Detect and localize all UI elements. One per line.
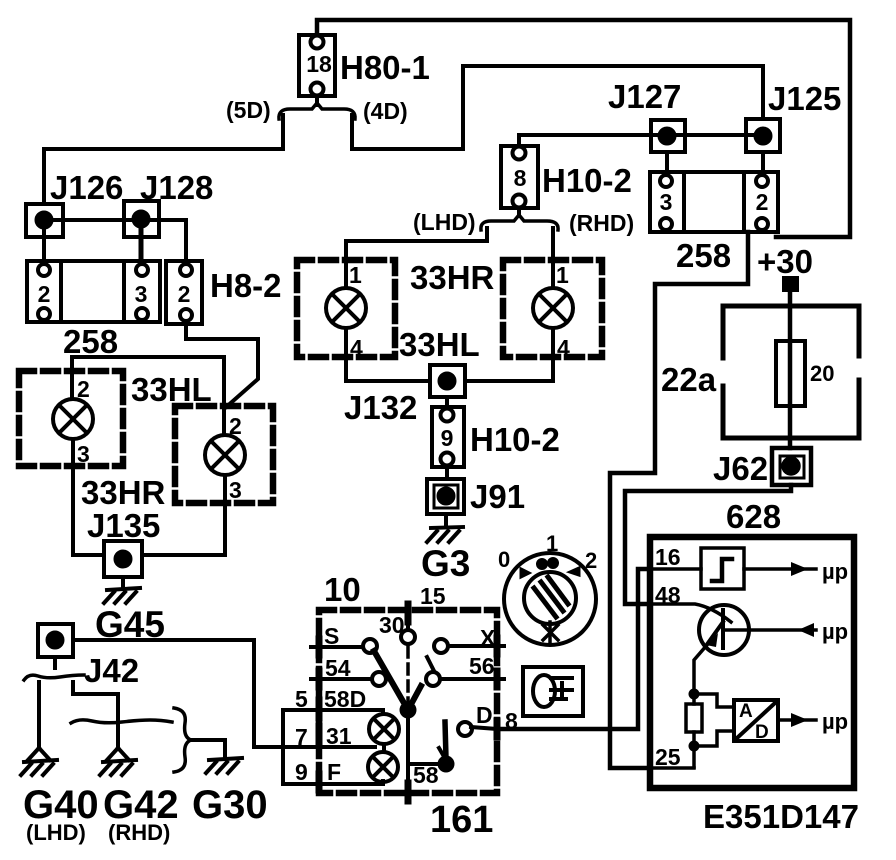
wire left lamp bus — [72, 357, 224, 435]
wire 31 line — [255, 745, 375, 749]
D lever — [445, 722, 446, 758]
linkage dashed — [406, 647, 410, 702]
wire LHD branch — [346, 228, 487, 288]
connector H10-2 pin8 — [501, 146, 538, 208]
wire J126 to J128 — [44, 218, 141, 222]
svg-text:258: 258 — [63, 323, 118, 360]
svg-text:18: 18 — [306, 51, 332, 77]
arrow left — [798, 623, 814, 637]
svg-text:(RHD): (RHD) — [569, 210, 634, 236]
connector J127 — [651, 120, 685, 152]
wire J42 to switch pin7 — [73, 640, 283, 747]
wire schmitt output to up — [744, 567, 816, 571]
bulb right — [205, 435, 245, 475]
wire J91 to ground — [444, 514, 448, 527]
lamp box 33HR right dashed — [175, 406, 273, 503]
connector separation line bottom — [71, 720, 172, 723]
wire A/D output to up — [778, 718, 816, 722]
svg-text:J135: J135 — [87, 507, 160, 544]
connector H80-1 — [299, 35, 335, 96]
svg-text:J127: J127 — [608, 78, 681, 115]
svg-text:22a: 22a — [661, 361, 717, 398]
svg-text:258: 258 — [676, 237, 731, 274]
svg-text:10: 10 — [324, 571, 361, 608]
svg-text:16: 16 — [655, 544, 681, 570]
connector J128 — [124, 201, 159, 237]
svg-text:µp: µp — [822, 709, 848, 734]
svg-text:2: 2 — [178, 281, 191, 307]
pin bar 56 — [494, 671, 501, 687]
svg-text:15: 15 — [420, 583, 446, 609]
schmitt trigger U1 — [701, 548, 744, 589]
wire 58 to D lever — [408, 762, 445, 766]
svg-text:(LHD): (LHD) — [26, 820, 86, 845]
wire J126 down — [42, 228, 46, 261]
emitter arrow — [706, 633, 718, 647]
pin bar 9 — [316, 774, 323, 790]
lamp box 33HL left dashed — [19, 371, 123, 466]
svg-text:33HL: 33HL — [131, 371, 212, 408]
A/D converter U2 — [734, 700, 778, 741]
wire brace to G30 — [191, 740, 225, 757]
pin 58 bar — [405, 783, 412, 801]
pin bar 5 — [316, 700, 323, 718]
switch box 10 dashed — [319, 610, 497, 793]
wire tap top to A/D — [694, 694, 734, 707]
svg-text:H10-2: H10-2 — [470, 421, 560, 458]
connector J91 — [427, 479, 464, 514]
wire H10-2 pin8 top to J127 J125 — [519, 135, 763, 146]
svg-text:(4D): (4D) — [363, 98, 408, 124]
svg-text:D: D — [755, 722, 769, 743]
svg-text:µp: µp — [822, 619, 848, 644]
wire H80-1 bottom stub — [315, 96, 319, 105]
svg-text:J62: J62 — [713, 450, 768, 487]
svg-text:2: 2 — [756, 189, 769, 215]
contact 54 — [372, 672, 386, 686]
svg-text:G30: G30 — [192, 783, 268, 827]
D lever tick — [439, 748, 446, 760]
svg-text:4: 4 — [557, 335, 570, 361]
junction node bottom — [689, 741, 700, 752]
contact X — [434, 639, 448, 653]
svg-text:0: 0 — [498, 547, 510, 572]
bulb mid-right — [533, 288, 573, 328]
svg-text:9: 9 — [295, 759, 308, 785]
knob bottom lamp mark — [543, 622, 558, 643]
svg-text:H8-2: H8-2 — [210, 267, 282, 304]
wire 8 line from switch to pin16 — [499, 569, 650, 729]
contact lever X-56 — [427, 657, 434, 671]
connector separation line top — [24, 675, 84, 680]
svg-text:D: D — [476, 702, 493, 728]
svg-text:(5D): (5D) — [226, 97, 271, 123]
wire G40 branch — [37, 682, 41, 748]
connector J125 — [746, 119, 780, 152]
connector J135 — [104, 541, 142, 577]
svg-text:8: 8 — [505, 708, 518, 734]
svg-text:J91: J91 — [470, 478, 525, 515]
connector J42 — [38, 624, 73, 657]
pin bar X — [494, 638, 501, 654]
split bracket LHD/RHD — [481, 215, 558, 230]
wire D to pin 8 — [471, 727, 497, 729]
wire 58D line — [283, 710, 383, 714]
wire collector to up — [723, 628, 816, 632]
contact D — [458, 722, 472, 736]
headlamp icon — [533, 675, 572, 707]
wire 54 — [311, 677, 371, 681]
svg-text:3: 3 — [135, 281, 148, 307]
connector J132 — [430, 365, 465, 397]
svg-text:33HR: 33HR — [81, 474, 166, 511]
wire right bulb to J135 — [142, 475, 225, 555]
wire 58 down — [406, 716, 410, 799]
svg-text:J132: J132 — [344, 389, 417, 426]
ground G3 — [427, 527, 463, 542]
wire pin48 to transistor base — [653, 604, 731, 622]
wire left link 5-9 — [281, 710, 285, 784]
control unit box E351D147 — [650, 537, 854, 788]
wire J127 to fuseblock — [665, 152, 669, 172]
ground G42 — [100, 760, 136, 775]
wire +30 to J62 through fuse — [788, 292, 793, 448]
wire mid-left bulb to J132 — [346, 328, 430, 381]
bulb mid-left — [326, 288, 366, 328]
svg-text:(LHD): (LHD) — [413, 209, 476, 235]
contact S — [363, 639, 377, 653]
arrow right — [791, 562, 808, 576]
wire H10-2 pin8 bottom stub — [517, 208, 521, 216]
lamp box 33HR mid-left dashed — [297, 260, 395, 357]
svg-text:F: F — [327, 759, 341, 785]
svg-text:+30: +30 — [757, 243, 813, 280]
wire H8-2 down diagonal to right lamp box — [186, 324, 258, 408]
wire RHD branch — [551, 228, 555, 288]
svg-text:3: 3 — [229, 477, 242, 503]
wire J128 down — [139, 228, 144, 261]
svg-text:2: 2 — [38, 281, 51, 307]
ground G45 — [104, 588, 140, 603]
contact 30 — [401, 630, 415, 644]
svg-text:4: 4 — [350, 335, 363, 361]
svg-text:J126: J126 — [50, 169, 123, 206]
fuse block 258 left — [27, 261, 160, 322]
wire 5D branch to J126 — [44, 115, 283, 204]
wire J128 to H8-2 top — [141, 220, 186, 261]
svg-text:A: A — [739, 701, 753, 722]
svg-text:2: 2 — [585, 548, 597, 573]
svg-text:µp: µp — [822, 559, 848, 584]
plug fork G40 — [28, 748, 50, 760]
svg-text:25: 25 — [655, 744, 681, 770]
transistor Q1 — [699, 605, 749, 655]
split bracket 5D/4D — [279, 103, 355, 119]
brace — [174, 708, 191, 772]
D lever node — [438, 756, 455, 773]
wire J62 to E351 pin48 — [625, 485, 791, 604]
wire 56 — [440, 677, 504, 681]
svg-text:H10-2: H10-2 — [542, 162, 632, 199]
connector J62 — [772, 448, 811, 485]
knob marks — [521, 559, 579, 578]
pin bar D8 — [494, 721, 501, 737]
wire top bus from H80-1 pin to right rail — [317, 20, 850, 237]
wire F line — [283, 781, 383, 784]
wire J132 to H10-2 pin9 — [445, 397, 449, 407]
svg-text:33HL: 33HL — [399, 326, 480, 363]
resistor R1 — [686, 704, 702, 732]
fuse block 258 right — [650, 172, 778, 232]
contact 56 — [426, 672, 440, 686]
svg-text:G3: G3 — [421, 543, 470, 584]
wire tap bottom to A/D — [694, 731, 734, 746]
pin bar 54 — [316, 671, 323, 687]
svg-text:20: 20 — [810, 361, 834, 386]
svg-text:8: 8 — [514, 165, 527, 191]
pin 15 bar — [405, 604, 412, 622]
svg-text:J125: J125 — [768, 80, 841, 117]
wire pin16 — [653, 567, 701, 571]
wire resistor leads — [692, 694, 696, 767]
wire S — [311, 645, 362, 649]
bulb ill 2 — [368, 752, 398, 782]
svg-text:1: 1 — [349, 262, 362, 288]
lamp box 33HL mid-right dashed — [503, 260, 602, 357]
svg-text:1: 1 — [556, 262, 569, 288]
wire mid-right bulb to J132 — [465, 328, 553, 381]
wire fuseblock to E351 feed — [610, 232, 748, 768]
fuse 20 — [776, 341, 805, 406]
wire J125 to fuseblock — [761, 152, 765, 172]
svg-text:3: 3 — [77, 441, 90, 467]
connector H10-2 pin9 — [432, 407, 464, 467]
svg-text:9: 9 — [441, 425, 454, 451]
connector H8-2 — [166, 261, 202, 324]
pivot node — [400, 702, 417, 719]
svg-text:(RHD): (RHD) — [108, 820, 170, 845]
junction node top — [689, 689, 700, 700]
wire 15 to contact 30 — [406, 622, 410, 630]
wire emitter down — [694, 645, 707, 694]
wire X — [448, 644, 504, 648]
wire J135 to ground — [121, 577, 125, 589]
svg-text:1: 1 — [546, 531, 558, 556]
ground G30 — [206, 758, 242, 773]
svg-text:33HR: 33HR — [410, 259, 495, 296]
connector J126 — [26, 204, 63, 237]
wire 4D branch to J125 — [352, 66, 763, 149]
wire between bulbs — [382, 744, 386, 752]
svg-text:E351D147: E351D147 — [703, 798, 859, 835]
pin bar 7 — [316, 726, 323, 744]
rotary light switch knob — [504, 553, 596, 645]
wire pin25 — [653, 766, 694, 770]
headlamp icon box — [523, 667, 583, 716]
svg-text:J42: J42 — [84, 652, 139, 689]
pin bar S — [316, 639, 323, 655]
wire G42 branch — [73, 682, 118, 748]
switch lever S to pivot — [374, 651, 421, 710]
terminal +30 — [782, 276, 799, 292]
svg-text:628: 628 — [726, 498, 781, 535]
bulb ill 1 — [369, 714, 399, 744]
wire H10-2 to J91 — [445, 467, 449, 479]
arrow right — [791, 713, 808, 727]
svg-text:161: 161 — [430, 799, 493, 841]
plug fork G42 — [107, 748, 129, 760]
svg-text:H80-1: H80-1 — [340, 49, 430, 86]
svg-text:3: 3 — [660, 189, 673, 215]
fuse holder box 22a — [723, 306, 859, 438]
ground G40 — [21, 760, 57, 775]
svg-text:56: 56 — [469, 653, 495, 679]
wire J42 down — [53, 657, 57, 668]
bulb left — [53, 399, 93, 439]
wire left bulb to J135 — [73, 439, 104, 555]
